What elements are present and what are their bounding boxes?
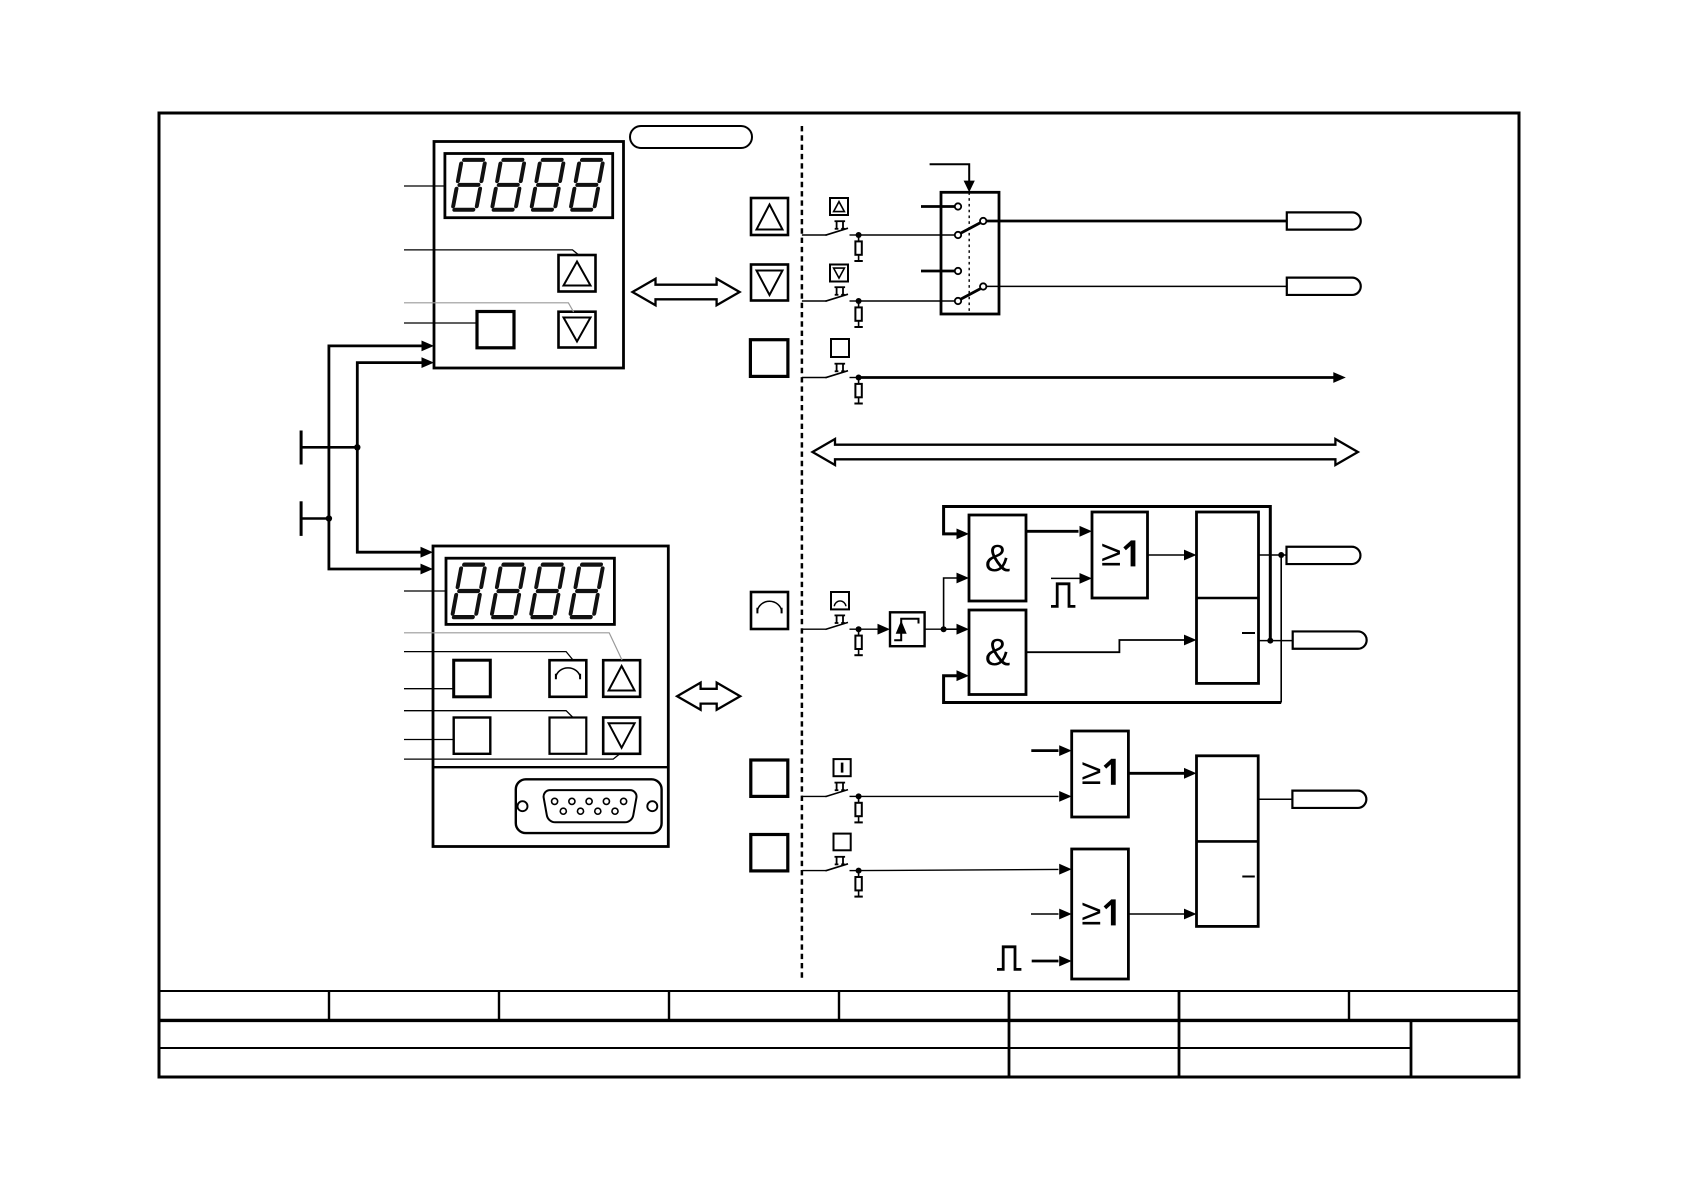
raise switch + pulldown [802,228,863,261]
AND gate U1 [969,515,1026,601]
wire pole1 to output pill [986,220,1286,223]
OR gate U6 [1072,849,1129,979]
7-segment display window [446,558,614,624]
7-segment digits 8888 [452,565,485,618]
key off2 (big) [751,835,788,871]
off2 key icon small [834,834,851,851]
stub input 1 [921,205,955,208]
on/off state pill [1292,791,1366,808]
DB9 pins row2 [560,808,566,814]
selector switch box [941,192,999,314]
callout display [404,590,445,592]
U6 output to U7 [1128,913,1184,915]
pulse symbol U3 input2 [1051,584,1075,607]
panel section divider [433,766,668,768]
DB9 pins row1 [552,798,558,804]
U5 input1 stub [1031,749,1058,752]
jog key (big) [751,592,788,629]
callout Fn row2 [404,739,454,741]
U7 output wire [1258,798,1292,800]
panel body [433,546,668,847]
off command wire with arrow [859,376,1334,379]
dashed separator line [801,126,804,980]
AND gate U2 [969,610,1026,695]
svg-text:&: & [985,538,1010,580]
bus line outer [329,346,422,569]
source select feed wire [930,164,970,181]
U4 Q output wire [1259,554,1287,556]
svg-text:&: & [985,632,1010,674]
on switch + pulldown [802,790,863,823]
wire lower to selector [859,300,955,302]
key on (big) [751,760,788,796]
junction jog [941,626,947,632]
panel up button [559,255,596,292]
operator panel AOP (bottom) [404,546,668,847]
off key icon small [831,339,849,357]
double arrow BOP<->keys [633,279,740,306]
callout raise (light) [404,633,622,660]
U3 output to U4 [1148,554,1185,556]
wire off2 to OR gate U6 [859,869,1059,870]
edge detector output wire [925,628,944,630]
button Fn row1 [454,660,491,697]
callout Fn row1 [404,688,454,690]
feedback loop Q to U2 [1280,555,1282,703]
callout line down button (light) [404,303,574,312]
branch to AND1 input2 [944,578,958,629]
off pushbutton actuator [835,364,846,372]
jog key icon small [831,592,849,609]
lower key icon small [830,265,848,282]
raise key icon small [830,198,848,215]
OR gate U3 [1092,512,1148,598]
key lower (big) [751,265,788,301]
operator panel BOP (top) [404,142,624,369]
label pill top [630,126,752,148]
branch to AND2 input1 [944,628,958,630]
off switch + pulldown [802,371,863,404]
contact circles pole 2 [955,268,961,274]
DB9 connector shell [516,779,662,833]
callout line display [404,185,445,187]
RS flip-flop U4 [1197,512,1259,683]
U2 output to U4 [1026,640,1184,652]
wire raise to selector [859,234,955,236]
raise pushbutton actuator [835,221,846,229]
selector mode dotted line [968,192,970,314]
feed arrowhead [964,181,975,193]
edge detector box [890,612,925,646]
key off (big) [750,340,788,377]
bus line inner [357,363,422,553]
U1 output to U3 [1026,530,1079,533]
button raise row1 [603,660,640,697]
RS flip-flop U7 [1197,756,1259,927]
on key icon small [834,759,851,776]
button Fn row2 [454,718,491,754]
7-segment display window [445,154,613,218]
DB9 mounting holes [518,801,528,811]
wire on to OR gate U5 [859,795,1059,797]
jog pushbutton actuator [835,615,846,623]
selector pole 1 blade [961,223,981,233]
pulse symbol U6 input3 [997,947,1021,970]
button blank row2 [550,718,587,754]
wire pole2 to output pill [986,285,1286,287]
callout line up button [404,250,579,256]
frame border [159,113,1519,1077]
bus terminal 1 wire [301,446,357,449]
panel body [434,142,624,369]
lower switch + pulldown [802,294,863,327]
callout lower (under) [404,754,620,759]
U6 input3 stub [1032,960,1059,963]
off2 switch + pulldown [802,864,863,897]
Qbar output pill [1293,631,1367,648]
7-segment digits 8888 [453,160,486,210]
callout line function button [404,322,477,324]
on pushbutton actuator [835,783,846,791]
button lower row2 [603,718,640,754]
bus terminal 1 [300,431,303,465]
jog switch + pulldown [802,622,863,655]
stub input 2 [921,270,955,273]
U4 Qbar output wire [1259,640,1293,642]
off2 pushbutton actuator [835,857,846,865]
callout blank row2 [404,711,573,718]
wire jog to edge detector [859,628,878,630]
callout jog [404,652,573,660]
button jog row1 [550,660,587,697]
bus terminal 2 wire [301,517,329,520]
feedback loop Qbar to U1 [944,507,1271,641]
selector pole 2 blade [961,289,981,299]
panel function button [477,312,514,348]
double arrow AOP<->keys [677,683,740,710]
U3 input2 stub [1051,577,1080,579]
edge symbol [894,619,918,641]
lower pushbutton actuator [835,287,846,295]
U5 output to U7 [1128,772,1184,775]
DB9 D-shape [544,790,637,822]
wide double arrow keys<->terminal [813,439,1358,465]
key raise (big) [751,198,788,235]
title block [159,991,1519,1077]
OR gate U5 [1072,731,1129,817]
panel down button [559,312,596,348]
Q output pill [1287,547,1361,564]
output pill raise [1287,212,1361,229]
output pill lower [1287,278,1361,295]
U6 input2 stub [1031,913,1059,915]
bus terminal 2 [300,501,303,536]
contact circles pole 1 [955,203,961,209]
